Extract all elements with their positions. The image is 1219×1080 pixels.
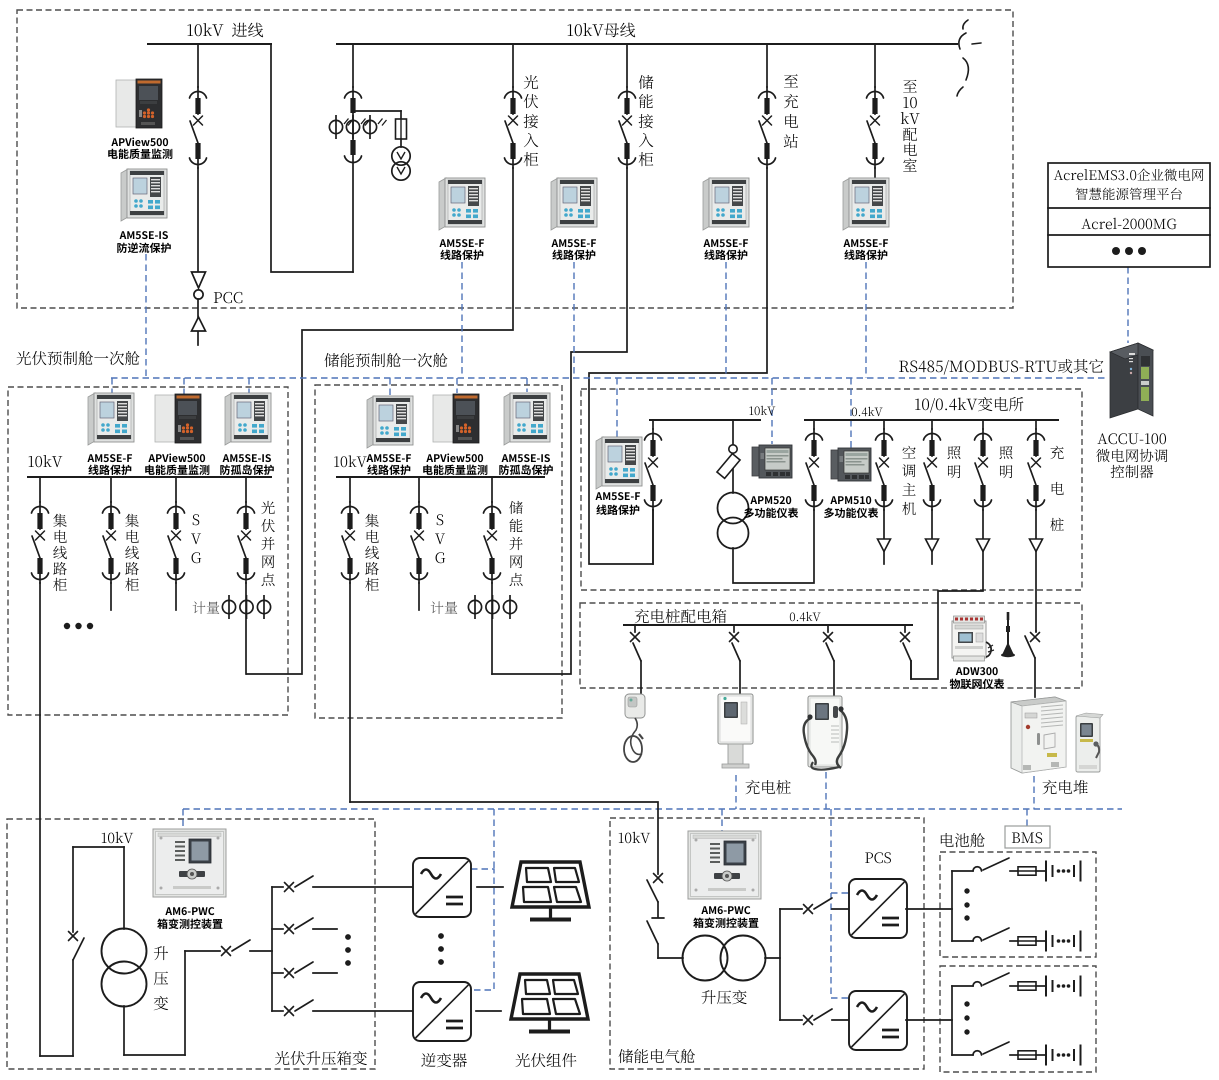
wire transformer primary tap bbox=[732, 420, 734, 446]
wire incoming feeder upper bbox=[197, 44, 199, 87]
breaker PV feeder x=246 bbox=[238, 502, 255, 583]
wire PV feeder x=111 stub bbox=[110, 477, 112, 502]
voltage transformer PT1 bbox=[392, 147, 410, 180]
device AM5SE-F line protection top #2 bbox=[551, 178, 597, 230]
wire to DC charger bbox=[833, 661, 835, 696]
label AM5SE-F ESS cabin bbox=[366, 454, 411, 462]
comm tooth to AM6-PWC (ESS) bbox=[721, 809, 723, 831]
wire 0.4kV feeder x=1036 stub bbox=[1035, 420, 1037, 429]
wire PV feeder x=246 stub bbox=[245, 477, 247, 502]
switch-disconnector ESS entry bbox=[654, 874, 663, 883]
label 10kV ESS cabin bbox=[334, 455, 367, 467]
fuse FU1 bbox=[400, 111, 402, 119]
EMS ellipsis dots bbox=[1112, 247, 1146, 255]
wire left switch column upper bbox=[72, 847, 74, 932]
comm dashed lower horizontal bus bbox=[183, 808, 1122, 810]
comm tooth to BMS bbox=[1026, 809, 1028, 826]
device AM5SE-F line protection top #1 bbox=[439, 178, 485, 230]
label AM5SE-F PV cabin bbox=[87, 454, 132, 462]
breaker substation incomer bbox=[645, 429, 662, 510]
switch PCS1 bbox=[804, 905, 813, 914]
ESS prefab cabin enclosure (dashed) bbox=[315, 385, 562, 718]
wire ESS feeder x=492 stub bbox=[491, 477, 493, 502]
wire feeder ESS incoming cabinet upper bbox=[626, 44, 628, 87]
device charging stack dispenser bbox=[1076, 713, 1103, 772]
comm dashed main horizontal bus bbox=[111, 377, 1108, 379]
label 10kV busbar bbox=[568, 23, 636, 38]
device ADW300 meter bbox=[952, 616, 994, 661]
wire secondary riser bbox=[184, 951, 186, 1055]
wire inverter branch 1 stub bbox=[272, 886, 283, 888]
device AM5SE-IS anti-island (PV cabin) bbox=[225, 393, 271, 445]
label charging pile feeder (vertical) bbox=[1050, 446, 1063, 459]
breaker 0.4kV incomer bbox=[806, 429, 823, 510]
label AM5SE-F top #1 bbox=[439, 239, 484, 247]
CT trio with polarity marks bbox=[329, 115, 386, 139]
label APM520 bbox=[750, 496, 791, 504]
wire incoming feeder lower bbox=[197, 168, 199, 272]
comm teeth to ESS-cabin devices bbox=[389, 378, 391, 395]
wire ESS-incoming feeder down + jog bbox=[492, 168, 627, 674]
wire PT branch tap bbox=[353, 110, 401, 112]
breaker feeder to charging station bbox=[759, 87, 776, 168]
wire bottom link bbox=[40, 1055, 73, 1057]
transformer T-ESS step-up bbox=[683, 936, 766, 981]
node PV cabin 10kV bus bbox=[28, 476, 271, 478]
label inverter bbox=[421, 1053, 467, 1067]
transformer primary drop bbox=[123, 847, 125, 929]
node fan-out bus bbox=[271, 887, 273, 1011]
wire PCS1 to battery bus bbox=[906, 908, 952, 910]
battery cabin 1 enclosure (dashed) bbox=[940, 852, 1096, 957]
wire to-charging-station feeder down + jog to substation bbox=[589, 168, 767, 564]
breaker QF2 lower contact bar bbox=[350, 140, 355, 155]
device APView500 (PV cabin) bbox=[155, 394, 201, 443]
breaker PV feeder x=176 bbox=[168, 502, 185, 583]
transformer T-PV step-up bbox=[102, 929, 147, 1007]
wire PV feeder x=176 stub bbox=[175, 477, 177, 502]
wire feeder to charging station upper bbox=[766, 44, 768, 87]
breaker QF1 (incoming) bbox=[190, 87, 207, 168]
label distribution box title bbox=[635, 609, 727, 623]
wire feeder to 10kV distribution room upper bbox=[874, 44, 876, 87]
device AM5SE-F line protection top #4 bbox=[843, 178, 889, 230]
label Acrel-2000MG bbox=[1081, 218, 1176, 229]
label RS485/MODBUS-RTU bbox=[899, 359, 1103, 375]
label collector cabinet 2 (vertical) bbox=[125, 514, 139, 527]
breaker QF2 lower arc bbox=[345, 156, 362, 163]
breaker QF2 upper contact bar bbox=[350, 98, 355, 113]
wire inverter branch 4 bbox=[313, 1010, 413, 1012]
device AM5SE-IS anti-island (ESS cabin) bbox=[504, 393, 550, 445]
comm dashed drop from top AM5SE-F at x=726 bbox=[725, 262, 727, 378]
wire to-10kV-room feeder stub bbox=[874, 168, 876, 181]
label step-up transformer (vertical) bbox=[154, 946, 168, 960]
comm vertical inverters bbox=[493, 809, 495, 869]
breaker ESS feeder x=350 bbox=[342, 502, 359, 583]
label charging pile bbox=[745, 780, 790, 794]
comm tooth to AM6-PWC (PV) bbox=[182, 809, 184, 829]
wire QF2 mid bbox=[352, 87, 354, 98]
ellipsis dots between inverters bbox=[438, 933, 444, 965]
label AcrelEMS3.0 line1 bbox=[1054, 169, 1204, 181]
PV step-up box-transformer enclosure (dashed) bbox=[7, 819, 375, 1069]
wire 10kV link top bbox=[73, 846, 124, 848]
comm tooth to substation AM5SE-F bbox=[616, 378, 618, 437]
switch dist-box QS3 bbox=[827, 625, 829, 632]
label APView500 PV cabin bbox=[148, 453, 205, 462]
label AM5SE-F top #2 bbox=[551, 239, 596, 247]
wire to LV switch bbox=[185, 950, 220, 952]
label ADW300 bbox=[956, 667, 998, 675]
label AM5SE-F top #4 bbox=[843, 239, 888, 247]
ellipsis dots battery bus 2 bbox=[964, 1001, 969, 1034]
switch inverter branch 4 bbox=[285, 1007, 294, 1016]
wire to ESS transformer bbox=[658, 957, 683, 959]
label ESS electrical cabin bbox=[619, 1049, 695, 1063]
comm tooth from AC pile bbox=[735, 775, 737, 809]
device APM510 meter bbox=[831, 448, 871, 481]
wire SVG feeder stub (ESS) bbox=[418, 583, 420, 610]
inverter INV2 bbox=[413, 982, 471, 1041]
node PCS riser bus bbox=[779, 909, 781, 1020]
outgoing arrow x=983 bbox=[982, 510, 984, 539]
charging-pile distribution box enclosure (dashed) bbox=[580, 603, 1082, 688]
outgoing arrow x=932 bbox=[931, 510, 933, 539]
wire PV collector 2 stub bbox=[110, 583, 112, 610]
switch dist-box QS2 bbox=[733, 625, 735, 632]
label 10kV PV cabin bbox=[29, 455, 63, 467]
label AM6-PWC (ESS) bbox=[701, 906, 750, 914]
wire inverter branch 3 stub bbox=[272, 972, 283, 974]
battery cabin 2 enclosure (dashed) bbox=[940, 966, 1096, 1072]
device APView500 (power quality) top-left bbox=[116, 79, 162, 128]
wire to wallbox charger bbox=[640, 661, 642, 694]
label ESS prefab cabin title bbox=[325, 353, 448, 367]
breaker QF2 (PT feeder) arc bbox=[345, 91, 362, 98]
wire INV1 dc stub bbox=[477, 886, 503, 888]
wire U-link from incoming line bbox=[271, 44, 353, 272]
wire QS4 to lighting-2 feeder bbox=[910, 661, 912, 679]
comm tooth from DC charger bbox=[825, 772, 827, 809]
PV module array 2 bbox=[511, 974, 588, 1032]
device AM6-PWC (ESS) bbox=[688, 831, 761, 899]
comm loop to PCS bbox=[830, 809, 832, 998]
wire inverter branch 4 stub bbox=[272, 1010, 283, 1012]
wire PCS1 branch bbox=[832, 908, 849, 910]
label PV incoming cabinet (vertical) bbox=[524, 75, 538, 89]
EMS platform box bbox=[1048, 163, 1210, 267]
label metering (PV) bbox=[193, 601, 220, 614]
comm tooth to APM520 bbox=[771, 378, 773, 444]
antenna ADW300 bbox=[1001, 612, 1015, 657]
label 0.4kV dist box bbox=[790, 612, 821, 621]
label to charging station (vertical) bbox=[784, 74, 798, 87]
PCC arrow down bbox=[192, 272, 206, 288]
outgoing arrow x=884 bbox=[883, 510, 885, 539]
label metering (ESS) bbox=[431, 601, 458, 614]
wire PCS2 to battery bus bbox=[906, 1019, 952, 1021]
breaker feeder to 10kV distribution room bbox=[867, 87, 884, 168]
breaker feeder ESS incoming cabinet bbox=[619, 87, 636, 168]
breaker ESS feeder x=419 bbox=[411, 502, 428, 583]
device ACCU-100 controller bbox=[1110, 343, 1153, 418]
wire SVG feeder stub (PV) bbox=[175, 583, 177, 610]
wire PCS2 branch bbox=[832, 1019, 849, 1021]
node substation 10kV bus bbox=[650, 419, 760, 421]
label 10kV (ESS cabin) bbox=[619, 832, 650, 843]
label BMS bbox=[1012, 832, 1042, 843]
isolating contact circle bbox=[729, 445, 737, 453]
wire 0.4kV feeder x=983 stub bbox=[982, 420, 984, 429]
label APM510 bbox=[830, 496, 871, 504]
label 10kV (PV box-transformer) bbox=[102, 832, 133, 843]
wire LV feed to fan bus bbox=[250, 950, 272, 952]
breaker 0.4kV feeder x=983 bbox=[975, 429, 992, 510]
PV prefab cabin enclosure (dashed) bbox=[8, 387, 288, 715]
wire transformer secondary down bbox=[123, 1006, 125, 1055]
inverter INV1 bbox=[413, 858, 471, 917]
device APView500 (ESS cabin) bbox=[433, 394, 479, 443]
wire ESS collector down to ESS cabin bbox=[349, 583, 351, 802]
wire PCS2 branch stub bbox=[780, 1019, 802, 1021]
wire ESS feeder x=350 stub bbox=[349, 477, 351, 502]
ellipsis dots fan branches bbox=[345, 934, 351, 966]
converter PCS2 bbox=[849, 991, 907, 1050]
wire transformer secondary bbox=[733, 510, 814, 583]
device AM5SE-F (ESS cabin) bbox=[367, 396, 413, 448]
switch dist-box QS1 bbox=[634, 625, 636, 632]
label PV modules bbox=[516, 1053, 577, 1067]
battery string 1b bbox=[952, 928, 1081, 951]
converter PCS1 bbox=[849, 879, 907, 938]
label SVG (vertical) bbox=[193, 514, 200, 525]
wire ESS grid-connection point down bbox=[491, 583, 493, 674]
10kV switchgear room enclosure (dashed) bbox=[17, 10, 1013, 308]
wire PCS1 branch stub bbox=[780, 908, 802, 910]
label AC host (vertical) bbox=[902, 446, 915, 459]
BMS box bbox=[1005, 826, 1050, 848]
device AM5SE-F line protection top #3 bbox=[703, 178, 749, 230]
wire ESS feeder x=419 stub bbox=[418, 477, 420, 502]
wire PT-feeder column bbox=[352, 44, 354, 87]
breaker PV feeder x=111 bbox=[103, 502, 120, 583]
label ACCU-100 bbox=[1097, 433, 1166, 444]
wire transformer LV to riser bbox=[765, 957, 780, 959]
comm dashed drop from top AM5SE-F at x=574 bbox=[573, 262, 575, 378]
wire left switch column lower bbox=[72, 960, 74, 1056]
battery string 2a bbox=[952, 973, 1081, 996]
wire inverter branch 1 bbox=[313, 886, 413, 888]
label APView500 ESS cabin bbox=[426, 453, 483, 462]
wire 0.4kV feeder x=884 stub bbox=[883, 420, 885, 429]
label PCS bbox=[865, 852, 891, 863]
label SVG (ESS, vertical) bbox=[437, 514, 444, 525]
wire INV2 dc stub bbox=[476, 1010, 501, 1012]
device AM5SE-F (substation) bbox=[596, 437, 642, 489]
switch PCS2 bbox=[804, 1016, 813, 1025]
label ESS grid point (vertical) bbox=[509, 501, 523, 514]
label AcrelEMS3.0 line2 bbox=[1076, 188, 1182, 200]
wire 0.4kV incomer stub bbox=[813, 420, 815, 429]
wire charging-pile feeder down bbox=[1035, 551, 1037, 631]
comm dashed drop from top AM5SE-F at x=462 bbox=[461, 262, 463, 378]
label PV grid point (vertical) bbox=[261, 501, 274, 514]
label AM5SE-F top #3 bbox=[703, 239, 748, 247]
label AM5SE-F substation bbox=[595, 492, 640, 500]
fuse FU2 (slanted) bbox=[732, 452, 734, 493]
wire fuse to PT bbox=[400, 139, 402, 147]
10/0.4kV substation enclosure (dashed) bbox=[581, 389, 1082, 590]
comm teeth to PV-cabin devices bbox=[111, 378, 113, 393]
switch LV feed (PV bt) bbox=[222, 947, 231, 956]
wire 0.4kV feeder x=932 stub bbox=[931, 420, 933, 429]
wire lighting-1 feeder end bbox=[931, 551, 933, 564]
label charging stack bbox=[1042, 780, 1087, 794]
label APView500 #1 bbox=[111, 137, 168, 146]
label collector cabinet (ESS, vertical) bbox=[365, 514, 379, 527]
wire PV grid-connection point down bbox=[245, 583, 247, 674]
switch charging-stack QS5 bbox=[1031, 633, 1040, 642]
wire secondary bottom link bbox=[124, 1054, 185, 1056]
transformer T1 10/0.4kV bbox=[718, 493, 749, 549]
breaker PV feeder x=40 bbox=[32, 502, 49, 583]
switch QS (PV bt) bbox=[69, 932, 78, 941]
device AM5SE-F (PV cabin) bbox=[88, 393, 134, 445]
label 10kV substation bus bbox=[749, 406, 775, 415]
wire PV collector 1 down to box-transformer bbox=[39, 583, 41, 1056]
PCC arrow up bbox=[192, 317, 206, 331]
comm tooth to APM510 bbox=[850, 378, 852, 448]
node battery bus 1 bbox=[951, 871, 953, 941]
label 0.4kV substation bus bbox=[852, 407, 883, 416]
wire inverter branch 2 stub bbox=[272, 928, 283, 930]
wire substation incomer stub bbox=[652, 420, 654, 429]
label collector cabinet 1 (vertical) bbox=[53, 514, 67, 527]
breaker 0.4kV feeder x=1036 bbox=[1028, 429, 1045, 510]
node dist box 0.4kV bus bbox=[624, 624, 912, 626]
breaker 0.4kV feeder x=932 bbox=[924, 429, 941, 510]
comm tooth from charging stack bbox=[1033, 776, 1035, 809]
label PV step-up box transformer bbox=[275, 1051, 367, 1065]
breaker feeder PV incoming cabinet bbox=[505, 87, 522, 168]
node battery bus 2 bbox=[951, 986, 953, 1055]
ellipsis dots PV feeders bbox=[64, 623, 93, 629]
switch dist-box QS4 bbox=[904, 625, 906, 632]
breaker 0.4kV feeder x=884 bbox=[876, 429, 893, 510]
device AC charging pile bbox=[718, 694, 753, 768]
ESS electrical cabin enclosure (dashed) bbox=[610, 818, 924, 1069]
outgoing arrow x=1036 bbox=[1035, 510, 1037, 539]
label PV prefab cabin title bbox=[17, 351, 140, 365]
label AM5SE-IS ESS cabin bbox=[502, 454, 550, 462]
wire PV feeder x=40 stub bbox=[39, 477, 41, 502]
wire inverter branch 3 bbox=[313, 972, 337, 974]
label lighting 2 (vertical) bbox=[999, 446, 1012, 459]
wire PCC below bbox=[197, 299, 199, 345]
wire QF2 down to U-link bbox=[352, 155, 354, 272]
breaker ESS feeder x=492 bbox=[484, 502, 501, 583]
switch inverter branch 3 bbox=[285, 969, 294, 978]
label battery cabin bbox=[941, 833, 985, 847]
wire PV-incoming feeder down + jog to PV cabin bbox=[247, 168, 513, 674]
bus break squiggle bbox=[957, 20, 981, 96]
wire ESS collector link bbox=[350, 802, 658, 874]
label lighting 1 (vertical) bbox=[947, 446, 960, 459]
label to 10kV distribution room (vertical) bbox=[903, 80, 917, 93]
wire AC-host feeder end bbox=[883, 551, 885, 564]
ellipsis dots battery bus 1 bbox=[964, 888, 969, 920]
wire substation incomer bottom bbox=[652, 510, 654, 564]
label PCC bbox=[214, 292, 243, 303]
label AM5SE-IS PV cabin bbox=[223, 454, 271, 462]
wire inverter branch 2 bbox=[313, 928, 337, 930]
label AM5SE-IS #1 bbox=[120, 231, 168, 239]
metering CTs (PV) bbox=[222, 595, 270, 619]
switch inverter branch 2 bbox=[285, 925, 294, 934]
comm loop to inverters bbox=[471, 869, 494, 990]
device charging stack cabinet bbox=[1011, 697, 1066, 773]
wire lighting-2 feeder to dist-box bbox=[911, 551, 983, 679]
PCC node circle bbox=[194, 290, 203, 299]
device AM5SE-IS anti-backflow bbox=[121, 169, 167, 221]
node substation 0.4kV bus bbox=[805, 419, 1058, 421]
label ESS step-up transformer bbox=[701, 990, 746, 1004]
wire to AC pile bbox=[739, 661, 741, 694]
device wallbox charger bbox=[624, 694, 645, 762]
comm dashed drop from top AM5SE-F at x=866 bbox=[865, 262, 867, 378]
device DC fast charger bbox=[804, 696, 847, 770]
label AM6-PWC (PV) bbox=[165, 907, 214, 915]
node ESS cabin 10kV bus bbox=[337, 476, 544, 478]
node 10kV incoming line bbox=[148, 43, 271, 45]
label ESS incoming cabinet (vertical) bbox=[639, 75, 654, 89]
label substation title bbox=[915, 397, 1023, 413]
node 10kV busbar bbox=[337, 43, 957, 45]
switch inverter branch 1 bbox=[285, 883, 294, 892]
battery string 1a bbox=[952, 858, 1081, 881]
device AM6-PWC (PV) bbox=[153, 829, 226, 897]
wire feeder PV incoming cabinet upper bbox=[512, 44, 514, 87]
metering CTs (ESS) bbox=[468, 595, 516, 619]
battery string 2b bbox=[952, 1042, 1081, 1065]
PV module array 1 bbox=[512, 862, 589, 920]
comm dashed EMS to ACCU-100 bbox=[1127, 267, 1129, 343]
device APM520 meter bbox=[752, 445, 792, 478]
label 10kV incoming bbox=[187, 23, 263, 38]
comm dashed drop from AM5SE-IS #1 bbox=[145, 254, 147, 378]
